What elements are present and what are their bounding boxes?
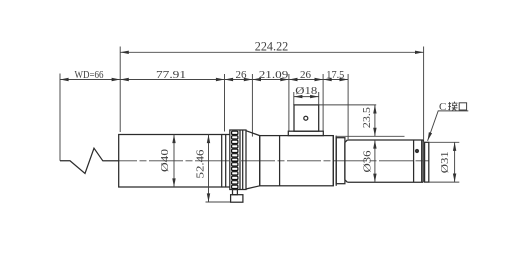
- dimension 77.91: [120, 69, 224, 132]
- dimension dia18: [294, 85, 319, 105]
- C-mount label text kou glyph: [459, 103, 466, 110]
- optical axis with break symbol: [60, 148, 119, 173]
- svg-text:Ø40: Ø40: [159, 148, 171, 172]
- middle tube: [260, 136, 334, 186]
- svg-text:WD=66: WD=66: [75, 69, 104, 81]
- C-mount label leader: [426, 101, 468, 142]
- svg-text:23.5: 23.5: [361, 107, 373, 129]
- dimension 224.22: [120, 40, 423, 142]
- top box (sensor/mount block): [294, 105, 319, 131]
- svg-text:26: 26: [300, 69, 312, 81]
- dimension 17.5: [323, 69, 348, 139]
- dimension 26 (first): [225, 69, 253, 137]
- dimension 21.09: [252, 69, 289, 131]
- knurled focus ring: [230, 130, 246, 190]
- mounting plate under top box: [288, 131, 323, 135]
- main barrel dia40: [119, 135, 222, 188]
- screw hole in box: [304, 116, 308, 120]
- svg-text:Ø31: Ø31: [439, 151, 451, 173]
- svg-text:17.5: 17.5: [326, 69, 344, 81]
- dimension dia31: [429, 142, 459, 182]
- svg-text:52.46: 52.46: [195, 149, 207, 179]
- spacer ring after barrel: [222, 135, 230, 188]
- svg-text:Ø36: Ø36: [361, 150, 373, 173]
- C-mount label text jie glyph: [448, 102, 457, 111]
- focus lock thumbscrew: [231, 190, 243, 203]
- dimension WD=66: [60, 69, 348, 81]
- ring at right of middle tube: [333, 136, 345, 186]
- C-mount flange: [425, 142, 429, 182]
- svg-text:Ø18: Ø18: [295, 85, 318, 97]
- centerline: [103, 160, 429, 162]
- svg-text:77.91: 77.91: [156, 69, 186, 81]
- taper cone after ring: [246, 131, 260, 189]
- dimension 23.5: [319, 105, 405, 136]
- svg-text:26: 26: [236, 69, 248, 81]
- dimension 26 (second): [289, 69, 323, 131]
- set screw dot: [415, 149, 419, 153]
- dimension 52.46: [195, 135, 231, 203]
- dimension dia40: [159, 135, 176, 188]
- svg-text:224.22: 224.22: [255, 40, 289, 54]
- dimension dia36: [361, 140, 376, 182]
- svg-text:C: C: [439, 101, 446, 113]
- dia36 tube: [345, 140, 423, 182]
- svg-text:21.09: 21.09: [259, 69, 289, 81]
- object plane line: [59, 74, 61, 161]
